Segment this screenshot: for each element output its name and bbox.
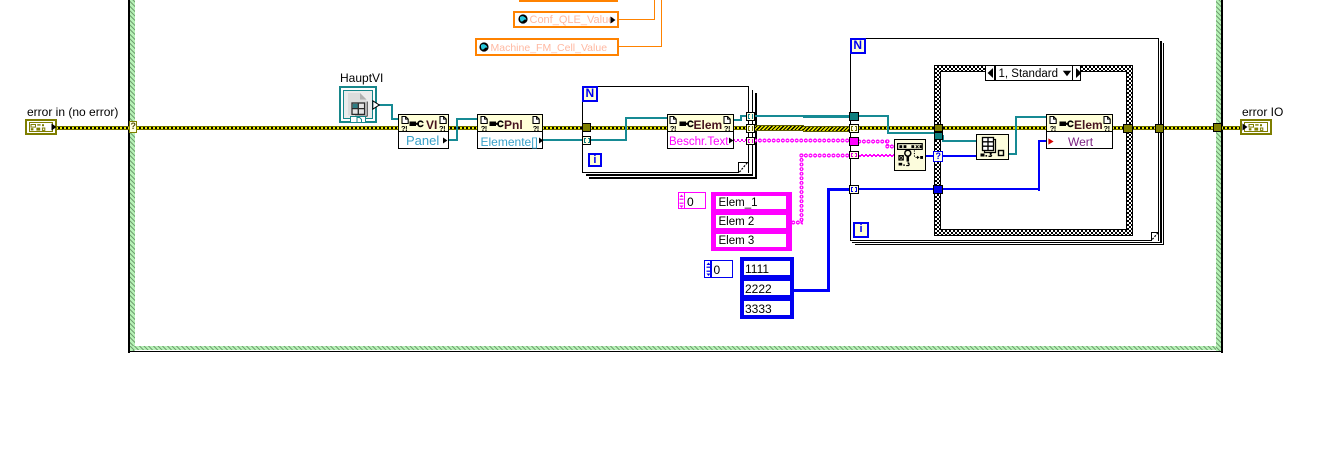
Pnl error-out pin ?! [533,126,539,132]
error IO terminal [1240,119,1272,135]
Elem(2) class name label [1074,119,1103,131]
VI property name label [406,135,439,147]
teal wire: node Elem ref-out to loop1 right tunnel [733,119,742,121]
case left tunnel solid olive [934,124,943,132]
Pnl ref-out page pin [532,116,540,124]
teal wire: Index Array out, up to node Elem2 ref-in [1008,153,1017,155]
selector left decrement arrow [986,66,995,80]
VI ref-out page pin [439,116,447,124]
Elem(2) property name label [1068,136,1093,148]
error in terminal [25,119,57,135]
loop1 right tunnel [] magenta [746,137,755,146]
numeric array cell 3333 [743,300,791,316]
error wire: node Pnl to loop1 left tunnel [542,126,583,130]
error wire: frame tunnel to error IO [1221,126,1241,130]
loop2 left tunnel [] magenta [849,151,858,160]
numeric array cell 2222 [743,280,791,296]
Elem(1) property name label [669,136,728,148]
VI property output arrow [442,137,448,144]
case selector tunnel "?" [933,151,943,163]
error wire: error in terminal to frame tunnel [56,126,130,130]
loop1 N terminal [582,86,598,102]
teal wire: case tunnel to Index Array node [941,135,944,137]
Pnl property output arrow [538,137,544,144]
VI property-node key symbol [409,120,424,128]
loop2 right tunnel solid olive [1155,124,1165,133]
selector dropdown arrow [1062,70,1072,77]
property node Elem/Beschr.Text [667,114,734,149]
case right tunnel solid olive [1123,124,1132,133]
string array constant [711,192,793,251]
error wire: inside loop1 to node Elem [590,126,668,130]
frame bottom hatch band [130,346,1216,351]
error wire: loop2 to frame tunnel [1163,126,1215,130]
for loop 1 stacked page borders (back pages) [752,90,754,176]
HauptVI label [340,72,383,85]
Search 1D Array function node [894,139,926,171]
teal wire: loop2 tunnel right, down, to case tunnel [858,115,889,117]
outer diagram-disable frame: left black edge [128,0,129,353]
Index Array function node [976,134,1009,161]
Elem(2) ref-in page pin [1049,116,1057,124]
Elem(1) property-node key symbol [679,120,694,128]
loop2 left tunnel [] olive [849,124,858,133]
error wire: node VI to node Pnl [448,126,479,130]
frame tunnel "?" on error wire (left) [129,121,137,133]
loop1 right tunnel [] olive [746,124,755,133]
frame tunnel solid olive (right) [1213,123,1222,132]
VI error-out pin ?! [439,126,445,132]
error IO label [1242,106,1283,119]
Pnl class name label [504,119,523,131]
loop2 left tunnel [] blue [849,185,858,194]
blue wire: search node out through ? selector to Index Array [925,155,978,157]
case left tunnel solid teal [934,132,943,140]
orange wire from global B [618,19,655,20]
frame bottom black edge [128,351,1222,353]
string array cell Elem 2 [715,214,787,229]
error wire: case to loop2 right tunnel [1130,126,1157,130]
Pnl error-in pin ?! [481,126,487,132]
string array index box [678,192,706,209]
numeric array constant [740,257,794,320]
Elem(2) property-node key symbol [1059,120,1074,128]
Elem(1) error-out pin ?! [724,126,730,132]
for loop 1 main border [582,86,749,173]
case left tunnel solid blue [933,185,943,194]
selector right increment arrow [1074,66,1083,80]
error in label [27,106,118,119]
teal wire: loop1 to loop2 (array of references) [754,115,804,117]
teal wire: HauptVI to node VI [377,104,392,106]
error wire: node Elem to loop1 right tunnel [733,126,749,130]
teal wire: loop1 tunnel to node Elem (S-bend) [590,139,627,141]
loop2 left tunnel solid magenta [849,137,858,146]
string array cell Elem 3 [715,233,787,248]
red coercion arrow on Wert input [1048,138,1054,145]
for loop 2 stacked page borders (back pages) [1160,41,1161,244]
blue wire: inside loop2 to case blue tunnel [857,188,935,190]
global variable B Conf_QLE_Value [513,11,618,29]
teal wire: Panel out S-bend to node Pnl [448,139,457,141]
case selector label [985,65,1081,81]
global variable C Machine_FM_Cell_Value [475,38,619,56]
property node Pnl/Elemente[] [477,114,542,149]
blue wire: case blue tunnel right, up to Wert input [941,188,1040,190]
magenta squiggle wire: loop2 [] tunnel to search node [857,154,895,157]
globe icon B [518,14,528,24]
small white tab with page glyph at icon bottom [350,116,366,124]
error wire: node Elem2 to case right border [1112,126,1126,130]
loop2 left tunnel solid teal [849,112,858,121]
global variable A (top, mostly off-screen) [519,0,618,2]
for loop 2 dog-ear fold [1151,232,1157,241]
for loop 1 dog-ear fold [738,162,747,174]
VI ref-in page pin [401,116,409,124]
numeric array index box [704,260,733,277]
Pnl ref-in page pin [480,116,488,124]
case structure inner white area [940,71,1127,230]
Elem(1) error-in pin ?! [670,126,676,132]
Elem(2) ref-out page pin [1103,116,1111,124]
Elem(1) ref-in page pin [669,116,677,124]
frame right black edge [1221,0,1222,353]
Elem(2) error-out pin ?! [1104,126,1110,132]
error array wire: loop1 to loop2 (hatched) [754,125,804,131]
numeric array cell 1111 [743,260,791,276]
Elem(1) class name label [694,119,723,131]
magenta bead wire: string array constant up to loop2 [] tunnel [791,220,803,225]
loop1 left tunnel (solid olive) [582,123,591,132]
Elem(1) property output arrow [728,137,734,144]
loop1 right tunnel [] teal [746,112,755,121]
magenta bead wire: inside loop2 from solid tunnel to search node [857,139,889,144]
Pnl property name label [481,136,538,148]
VI error-in pin ?! [401,126,407,132]
selector text [999,68,1058,81]
loop2 N terminal [850,38,866,54]
teal wire: Elemente[] out to loop1 tunnel [542,139,584,141]
HauptVI output arrow [372,100,380,110]
magenta squiggle wire: node Elem Beschr.Text out to loop1 tunnel [733,139,749,142]
for loop 2 main border [850,38,1159,242]
property node Elem/Wert [1046,114,1113,149]
frame left hatch band [130,0,135,351]
document page inside icon [346,92,371,118]
magenta bead wire: loop1 to loop2 (array of strings) [753,138,852,143]
error wire: inside loop2 to case [858,126,936,130]
loop2 i terminal [853,222,869,238]
HauptVI static VI reference icon [339,86,377,123]
Elem(2) error-in pin ?! [1050,126,1056,132]
globe icon C [479,42,489,52]
error wire: inside case to node Elem2 [941,126,1048,130]
loop1 left tunnel [] teal [582,136,591,145]
Pnl property-node key symbol [489,120,504,128]
property node VI/Panel [398,114,449,149]
string array cell Elem_1 [715,195,787,210]
error wire: frame tunnel to property node VI [137,126,399,130]
Elem(1) ref-out page pin [723,116,731,124]
blue wire: numeric array constant to loop2 tunnel [792,289,830,292]
frame right hatch band [1216,0,1221,351]
loop1 i terminal [588,153,603,168]
VI class name label [426,119,437,131]
case structure checkered border [934,65,1134,237]
orange wire from global C [618,46,662,47]
